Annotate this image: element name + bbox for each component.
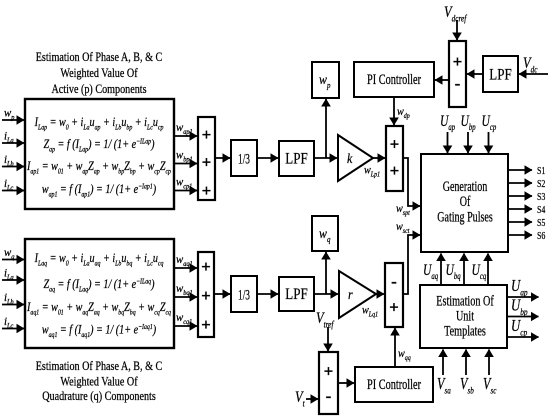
wire r to subtractor (q)	[376, 293, 384, 295]
output wire S6	[508, 234, 532, 236]
wire dc adder to PI controller	[435, 79, 449, 81]
input wire iLc	[2, 190, 24, 192]
PI controller (dc loop)	[354, 62, 434, 97]
caption: quadrature components estimator title	[36, 359, 163, 403]
wire w_spt to gating block	[403, 158, 420, 206]
svg-text:Estimation Of: Estimation Of	[436, 293, 494, 309]
output wire w_ap1	[174, 135, 197, 137]
svg-text:+: +	[390, 161, 400, 180]
wire LPF to gain k	[314, 157, 337, 159]
gain block 1/3 (p)	[231, 140, 257, 176]
input wire V_sb	[465, 350, 467, 376]
input wire iLb (q)	[2, 304, 24, 306]
gain k (triangle amplifier)	[338, 135, 373, 181]
svg-text:+: +	[324, 362, 334, 381]
adder: dc voltage error summer	[449, 41, 466, 107]
svg-text:Quadrature (q) Components: Quadrature (q) Components	[42, 389, 156, 403]
svg-text:+: +	[201, 286, 211, 305]
svg-text:1/3: 1/3	[238, 286, 250, 303]
wire w_qq from PI to subtractor	[394, 328, 396, 367]
wire U_bq up into gating block	[463, 254, 465, 285]
svg-text:S5: S5	[537, 217, 546, 230]
wire Vdcref to dc error adder	[456, 20, 458, 40]
output wire U_bp (right)	[507, 316, 539, 318]
svg-text:+: +	[390, 135, 400, 154]
svg-text:-: -	[391, 272, 397, 291]
svg-text:Estimation Of Phase A, B, & C: Estimation Of Phase A, B, & C	[36, 359, 163, 373]
svg-text:k: k	[347, 150, 352, 166]
weight block wp	[312, 62, 339, 98]
svg-text:Unit: Unit	[456, 308, 474, 324]
svg-text:S4: S4	[537, 204, 546, 217]
svg-text:S2: S2	[537, 178, 546, 191]
output wire w_bp1	[174, 163, 197, 165]
adder: three-input summer (p)	[198, 117, 215, 200]
output wire S2	[508, 182, 532, 184]
adder: two-input summer (p output)	[386, 126, 403, 191]
block: estimation of unit templates	[420, 285, 507, 348]
LPF block (p)	[279, 141, 314, 176]
svg-text:Weighted Value Of: Weighted Value Of	[60, 66, 137, 80]
svg-text:LPF: LPF	[285, 286, 307, 303]
wire Vtref to ac error adder	[327, 327, 329, 351]
output wire w_cq1	[174, 325, 197, 327]
svg-text:-: -	[326, 387, 332, 406]
output wire w_aq1	[174, 267, 197, 269]
input wire iLa	[2, 142, 24, 144]
wire U_ap into gating block	[447, 132, 449, 153]
wire 1/3 to LPF (q)	[257, 293, 278, 295]
svg-text:-: -	[455, 74, 461, 93]
svg-text:Active (p) Components: Active (p) Components	[51, 82, 146, 96]
input wire iLa (q)	[2, 279, 24, 281]
input wire iLc (q)	[2, 328, 24, 330]
adder: three-input summer (q)	[198, 252, 214, 337]
svg-text:S1: S1	[537, 165, 546, 178]
LPF block (dc)	[483, 56, 518, 92]
block: generation of gating pulses	[421, 154, 508, 252]
wire U_cq up into gating block	[487, 254, 489, 285]
svg-text:Gating Pulses: Gating Pulses	[437, 209, 493, 225]
output wire w_bq1	[174, 296, 197, 298]
wire w_dp from PI to adder	[393, 97, 395, 125]
block: phase ABC quadrature weighted value estimator	[25, 239, 174, 348]
output wire S1	[508, 169, 532, 171]
LPF block (q)	[279, 277, 314, 311]
wire U_aq up into gating block	[440, 254, 442, 285]
wire LPF to dc adder	[467, 73, 483, 75]
svg-text:Of: Of	[460, 193, 471, 209]
svg-text:LPF: LPF	[489, 67, 511, 84]
input wire wq (q)	[2, 259, 24, 261]
input wire Vdc	[519, 73, 548, 75]
wire ac adder to PI controller	[338, 382, 354, 384]
svg-text:+: +	[202, 153, 212, 172]
caption: active components estimator title	[36, 50, 163, 96]
subtractor: minus-plus summer (q output)	[385, 263, 403, 327]
svg-text:PI Controller: PI Controller	[367, 376, 422, 392]
input wire iLb	[2, 166, 24, 168]
svg-text:+: +	[453, 52, 463, 71]
svg-text:S3: S3	[537, 191, 546, 204]
output wire S3	[508, 195, 532, 197]
output wire U_ap (right)	[507, 296, 539, 298]
wire w_sct to gating block	[403, 235, 420, 294]
wire adder to 1/3 (p)	[215, 157, 230, 159]
svg-text:1/3: 1/3	[238, 150, 250, 167]
input wire V_sc	[488, 350, 490, 376]
input wire wp	[2, 119, 24, 121]
wire k to adder (p)	[373, 157, 385, 159]
branch wire up to wq block	[325, 252, 327, 294]
input wire V_sa	[442, 350, 444, 376]
weight block wq	[312, 216, 338, 251]
wire LPF to gain r	[314, 293, 338, 295]
svg-text:Weighted Value Of: Weighted Value Of	[60, 374, 137, 388]
svg-text:+: +	[201, 315, 211, 334]
svg-text:+: +	[202, 125, 212, 144]
input wire V_t	[306, 398, 318, 400]
gain block 1/3 (q)	[231, 276, 257, 312]
svg-text:+: +	[201, 257, 211, 276]
svg-text:+: +	[389, 298, 399, 317]
wire U_bp into gating block	[467, 132, 469, 153]
branch wire up to wp block	[325, 99, 327, 158]
svg-text:Templates: Templates	[444, 323, 486, 339]
svg-text:LPF: LPF	[285, 151, 307, 168]
svg-text:Generation: Generation	[443, 178, 488, 194]
output wire S5	[508, 221, 532, 223]
PI controller (ac loop)	[355, 367, 433, 402]
svg-text:S6: S6	[537, 230, 546, 243]
svg-text:+: +	[202, 181, 212, 200]
block: phase ABC active weighted value estimator	[25, 99, 174, 209]
wire U_cp into gating block	[488, 132, 490, 153]
output wire w_cp1	[174, 190, 197, 192]
wire adder to 1/3 (q)	[214, 293, 230, 295]
output wire U_cp (right)	[507, 336, 539, 338]
gain r (triangle amplifier)	[339, 271, 376, 318]
wire 1/3 to LPF (p)	[257, 157, 278, 159]
svg-text:PI Controller: PI Controller	[367, 71, 422, 87]
output wire S4	[508, 208, 532, 210]
svg-text:Estimation Of Phase A, B, & C: Estimation Of Phase A, B, & C	[36, 50, 163, 64]
adder: ac voltage error summer	[319, 352, 338, 414]
